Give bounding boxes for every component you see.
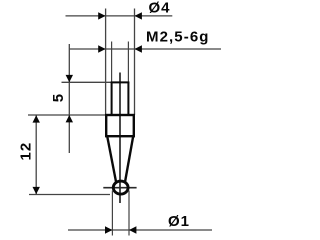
dimension Ø4 line: [66, 15, 173, 17]
extension line ball bottom (12 dim lower): [29, 194, 110, 196]
extension line Ø4 right: [134, 9, 136, 115]
arrow 5 lower (points up at collar top): [66, 115, 73, 122]
ball tip: [113, 181, 128, 194]
arrow Ø4 right: [135, 12, 142, 19]
dimension 12 vertical line: [35, 115, 37, 194]
arrow 5 upper (points down at stud top): [66, 75, 73, 82]
extension line stud top (5 dim upper): [62, 81, 112, 83]
dimension 5 vertical line: [68, 44, 70, 153]
arrow M2,5 right: [135, 45, 142, 52]
arrow Ø4 left: [98, 12, 105, 19]
stud side right: [127, 82, 129, 115]
dimension M2,5-6g line: [69, 48, 221, 50]
ball crosshair horizontal: [103, 187, 136, 189]
extension line Ø1 right: [128, 191, 130, 236]
svg-text:5: 5: [50, 94, 67, 102]
extension line thread left: [111, 42, 113, 85]
extension line collar top (5/12 dim): [28, 114, 106, 116]
cone right edge: [125, 136, 133, 183]
extension line Ø1 left: [111, 191, 113, 236]
svg-text:Ø1: Ø1: [168, 213, 190, 230]
cone left edge: [107, 136, 116, 183]
stud side left: [111, 82, 113, 115]
centerline vertical through part: [119, 73, 121, 204]
collar: [106, 115, 134, 136]
extension line thread right: [127, 42, 129, 85]
arrow M2,5 left: [98, 45, 105, 52]
arrow 12 upper (points up): [33, 115, 40, 122]
stud (threaded shank) top: [111, 81, 130, 83]
dimension Ø1 line: [68, 229, 212, 231]
arrow Ø1 left: [105, 226, 112, 233]
svg-text:Ø4: Ø4: [149, 0, 171, 17]
extension line Ø4 left: [105, 9, 107, 115]
svg-text:M2,5-6g: M2,5-6g: [146, 29, 210, 46]
svg-text:12: 12: [18, 142, 35, 161]
arrow 12 lower (points down): [33, 187, 40, 194]
arrow Ø1 right: [129, 226, 136, 233]
